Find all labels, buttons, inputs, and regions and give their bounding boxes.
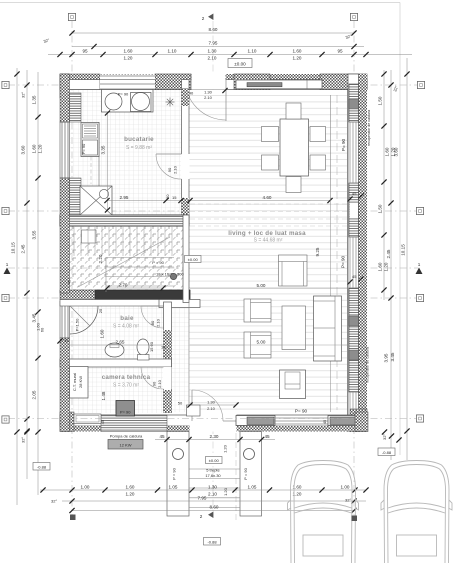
svg-text:±0.00: ±0.00 bbox=[234, 61, 246, 66]
stairs floor hatch bbox=[66, 216, 183, 293]
svg-text:95: 95 bbox=[337, 49, 343, 54]
porch pillar left bbox=[167, 432, 189, 517]
chair right2 bbox=[310, 155, 326, 170]
svg-text:1.60: 1.60 bbox=[32, 144, 37, 153]
right axis box 2 bbox=[416, 207, 423, 214]
living right shaft dashed line bbox=[336, 95, 338, 410]
svg-text:8.60: 8.60 bbox=[210, 505, 219, 510]
top wall pier right corner bbox=[320, 74, 367, 90]
left dim line outer bbox=[11, 68, 20, 505]
level box -0.88 right bbox=[378, 448, 395, 456]
entrance door arc bbox=[192, 390, 223, 421]
kitchen sink left circle bbox=[105, 93, 122, 110]
kitchen floor tiles bbox=[70, 89, 182, 215]
living dim 5.00 lower bbox=[190, 339, 347, 345]
svg-text:1.20: 1.20 bbox=[126, 492, 135, 497]
left wall pier hatch mid bbox=[60, 178, 70, 293]
left dim line 3 bbox=[32, 72, 45, 495]
chair left2 bbox=[262, 155, 279, 170]
top door swing arc bbox=[185, 79, 226, 120]
top dim line segments bbox=[48, 49, 412, 61]
right axis box 4 bbox=[416, 415, 423, 422]
porch level box bbox=[206, 457, 223, 464]
car 2 bbox=[381, 461, 452, 563]
stairs treads upper bbox=[74, 226, 172, 256]
svg-text:recuperator de caldura: recuperator de caldura bbox=[366, 347, 370, 383]
bottom axis label 2 bbox=[200, 512, 214, 520]
chair bottom bbox=[286, 177, 301, 193]
kitchen-living wall bbox=[182, 80, 190, 216]
porch dim line bbox=[155, 434, 275, 442]
top wall pier mid-left bbox=[155, 74, 191, 90]
svg-text:2.10: 2.10 bbox=[207, 406, 216, 411]
right wall insulation strip bbox=[359, 74, 368, 432]
fridge lower box bbox=[83, 140, 98, 155]
top wall core outline bbox=[60, 80, 367, 90]
bath washbasin bbox=[105, 343, 124, 357]
svg-text:1.10: 1.10 bbox=[248, 49, 257, 54]
axis 4 horizontal y=418.5 bbox=[8, 418, 418, 420]
chair right1 bbox=[310, 127, 326, 142]
bath dim 2.65 bbox=[70, 340, 163, 346]
right bottom ticks bbox=[382, 429, 402, 442]
chair top bbox=[286, 103, 301, 119]
right wall window3 lines bbox=[350, 392, 356, 409]
svg-text:2.10: 2.10 bbox=[156, 318, 161, 327]
svg-text:45: 45 bbox=[264, 434, 270, 439]
svg-text:45: 45 bbox=[322, 419, 327, 424]
svg-text:32°: 32° bbox=[21, 92, 26, 98]
svg-text:3.35: 3.35 bbox=[101, 145, 106, 154]
left wall brick leaf mid bbox=[70, 178, 82, 215]
svg-text:-0.88: -0.88 bbox=[382, 450, 392, 455]
svg-text:32°: 32° bbox=[51, 499, 57, 504]
right wall pier top bbox=[349, 84, 359, 122]
coffee table bbox=[282, 306, 306, 350]
svg-text:P = 90: P = 90 bbox=[172, 467, 177, 479]
right dim line c bbox=[401, 58, 410, 460]
level box -0.88 bottom bbox=[204, 538, 221, 546]
section line 1-1 y=268 bbox=[8, 267, 418, 269]
svg-text:2.10: 2.10 bbox=[157, 379, 162, 388]
svg-text:32°: 32° bbox=[21, 437, 26, 443]
svg-text:8.60: 8.60 bbox=[209, 27, 218, 32]
svg-text:P= 90: P= 90 bbox=[81, 143, 86, 154]
svg-text:1.35: 1.35 bbox=[32, 95, 37, 104]
axis marker top C bbox=[350, 13, 357, 20]
svg-text:12 KW: 12 KW bbox=[119, 442, 131, 447]
top level box 0.00 bbox=[228, 59, 252, 68]
svg-text:5.00: 5.00 bbox=[257, 339, 266, 344]
svg-text:7.95: 7.95 bbox=[209, 41, 218, 46]
svg-text:60: 60 bbox=[40, 327, 45, 332]
bottom axis square C bbox=[352, 516, 358, 522]
svg-text:1.20: 1.20 bbox=[293, 56, 302, 61]
bottom wall sill window left bbox=[74, 414, 101, 424]
hall floor bbox=[164, 302, 189, 412]
svg-text:9.25: 9.25 bbox=[315, 247, 320, 256]
svg-text:1.50: 1.50 bbox=[378, 204, 383, 213]
corner sink circle bbox=[99, 189, 108, 198]
svg-text:5 trepte: 5 trepte bbox=[206, 468, 220, 473]
bath shower diagonal bbox=[70, 306, 90, 326]
axis 3 horizontal y=298 bbox=[8, 297, 418, 299]
svg-text:P = 90: P = 90 bbox=[152, 260, 164, 265]
tv stand bbox=[280, 370, 306, 399]
kitchen hob star bbox=[166, 98, 175, 107]
armchair 2 bbox=[244, 332, 271, 358]
right wall 45 label low bbox=[347, 274, 363, 285]
right section marker 1 bbox=[416, 262, 423, 274]
svg-text:1.05: 1.05 bbox=[248, 484, 257, 489]
svg-text:15: 15 bbox=[161, 345, 166, 350]
bottom entrance door gap bbox=[190, 413, 237, 432]
bottom axis square A bbox=[70, 515, 76, 521]
top door dim labels bbox=[184, 88, 227, 102]
svg-text:1.30: 1.30 bbox=[208, 49, 217, 54]
left axis box 1 bbox=[2, 81, 9, 88]
svg-text:2.65: 2.65 bbox=[116, 340, 125, 345]
left section marker 1 bbox=[4, 262, 11, 274]
kitchen sink right circle bbox=[132, 93, 150, 111]
svg-text:4.60: 4.60 bbox=[263, 195, 272, 200]
bottom dim line 7.95 bbox=[62, 495, 366, 503]
svg-text:45: 45 bbox=[352, 274, 357, 279]
svg-text:±0.00: ±0.00 bbox=[209, 458, 220, 463]
svg-text:45: 45 bbox=[352, 191, 357, 196]
svg-text:90: 90 bbox=[167, 167, 172, 172]
bath door opening bbox=[163, 306, 172, 328]
living floor dashed rows bbox=[190, 204, 347, 226]
svg-text:1.20: 1.20 bbox=[38, 144, 43, 153]
porch pillar right circle bbox=[244, 449, 255, 460]
bottom wall pier mid-left bbox=[101, 415, 167, 432]
entrance door dim bbox=[187, 400, 238, 411]
svg-text:-0.88: -0.88 bbox=[207, 539, 217, 544]
stairs walk line bbox=[78, 237, 170, 287]
svg-text:S = 9.88 m²: S = 9.88 m² bbox=[126, 145, 152, 151]
svg-text:1.60: 1.60 bbox=[378, 262, 383, 271]
level box -0.88 left bbox=[33, 463, 50, 471]
hall-bath wall bbox=[164, 302, 172, 413]
plot boundary top line bbox=[0, 2, 400, 4]
svg-text:P= 90: P= 90 bbox=[120, 410, 131, 415]
svg-text:1.30: 1.30 bbox=[204, 90, 213, 95]
svg-text:2.70: 2.70 bbox=[119, 282, 128, 287]
svg-text:1: 1 bbox=[418, 262, 421, 267]
top wall pier left bbox=[60, 74, 100, 98]
svg-text:7.95: 7.95 bbox=[198, 495, 207, 500]
svg-text:P=1.50: P=1.50 bbox=[75, 318, 80, 332]
svg-text:2: 2 bbox=[200, 514, 203, 519]
living dim 4.60 bbox=[187, 195, 332, 203]
right wall 45 label mid bbox=[347, 191, 363, 202]
svg-text:5.00: 5.00 bbox=[257, 283, 266, 288]
svg-text:1.50: 1.50 bbox=[378, 96, 383, 105]
svg-text:3.45: 3.45 bbox=[390, 352, 395, 361]
svg-text:1.30: 1.30 bbox=[208, 484, 217, 489]
kitchen door opening bbox=[181, 154, 190, 179]
svg-text:90: 90 bbox=[152, 381, 157, 386]
shoe cabinet at entrance bbox=[187, 405, 201, 416]
left wall pier hatch bottom bbox=[60, 338, 70, 432]
left wall brick leaf top bbox=[70, 93, 82, 122]
left axis box 4 bbox=[2, 416, 9, 423]
right axis box 3 bbox=[416, 294, 423, 301]
top door leaf bbox=[225, 79, 227, 121]
svg-text:2.10: 2.10 bbox=[208, 492, 217, 497]
porch pillar right bbox=[240, 432, 262, 517]
svg-text:bucatarie: bucatarie bbox=[124, 136, 154, 143]
svg-text:80: 80 bbox=[165, 194, 170, 199]
right dim line a bbox=[378, 70, 389, 300]
svg-text:1.30: 1.30 bbox=[207, 400, 216, 405]
svg-text:2.95: 2.95 bbox=[120, 195, 129, 200]
bottom wall sill bench left bbox=[236, 416, 275, 426]
svg-text:2.10: 2.10 bbox=[204, 95, 213, 100]
svg-text:S = 3.70 m²: S = 3.70 m² bbox=[113, 383, 139, 389]
svg-text:95: 95 bbox=[82, 49, 88, 54]
pompa box bbox=[108, 440, 143, 450]
svg-text:1.10: 1.10 bbox=[168, 49, 177, 54]
kitchen-living wall hatch top bbox=[182, 88, 190, 106]
living west wall hatch low bbox=[182, 198, 190, 215]
kitchen window top bbox=[100, 75, 155, 90]
bottom wall sill bench right bbox=[328, 416, 361, 426]
svg-text:3.60: 3.60 bbox=[21, 145, 26, 154]
kitchen fridge bbox=[81, 123, 99, 157]
living dim 5.00 upper bbox=[190, 283, 347, 289]
svg-text:45: 45 bbox=[67, 279, 72, 284]
top dim line 7.95 bbox=[72, 41, 364, 50]
svg-text:3.95: 3.95 bbox=[384, 353, 389, 362]
svg-text:P= 90: P= 90 bbox=[341, 255, 346, 268]
svg-text:living + loc de luat masa: living + loc de luat masa bbox=[228, 230, 306, 237]
svg-text:camera tehnica: camera tehnica bbox=[102, 374, 151, 381]
left axis box 2 bbox=[2, 207, 9, 214]
svg-text:1.00: 1.00 bbox=[341, 484, 350, 489]
svg-text:2: 2 bbox=[202, 16, 205, 21]
axis porch vertical x=236 bbox=[235, 415, 237, 520]
svg-text:S = 4.08 m²: S = 4.08 m² bbox=[113, 324, 139, 330]
stairs-bath dark wall bbox=[60, 290, 190, 300]
svg-text:recuperator de caldura: recuperator de caldura bbox=[367, 110, 371, 146]
living room parquet bbox=[189, 90, 347, 415]
kitchen top counter bbox=[102, 90, 154, 113]
svg-text:2.10: 2.10 bbox=[208, 56, 217, 61]
hall-bath wall hatch low bbox=[164, 390, 172, 413]
entrance door leaf bbox=[191, 390, 193, 421]
boiler unit bbox=[70, 367, 89, 399]
axis 2 vertical x=213 bbox=[212, 21, 214, 512]
svg-text:3.45: 3.45 bbox=[32, 313, 37, 322]
right axis box 1 bbox=[417, 81, 424, 88]
left wall bath window lines bbox=[62, 301, 68, 338]
svg-text:1.00: 1.00 bbox=[81, 484, 90, 489]
svg-text:80: 80 bbox=[150, 320, 155, 325]
entrance door threshold bbox=[223, 420, 236, 422]
stairs drain circle bbox=[170, 273, 176, 279]
svg-text:2.05: 2.05 bbox=[32, 390, 37, 399]
svg-text:3.55: 3.55 bbox=[32, 230, 37, 239]
right wall pier bottom bbox=[350, 409, 367, 432]
svg-text:45: 45 bbox=[100, 419, 105, 424]
bath shower arc bbox=[70, 306, 98, 334]
kitchen corner sink unit bbox=[80, 186, 112, 215]
svg-text:1.20: 1.20 bbox=[124, 56, 133, 61]
right wall core bbox=[348, 74, 359, 432]
heat pump unit dark bbox=[116, 401, 135, 417]
kitchen vertical dim line bbox=[105, 110, 110, 212]
svg-text:1.20: 1.20 bbox=[223, 487, 228, 496]
svg-text:10.15: 10.15 bbox=[11, 242, 16, 254]
svg-text:1.05: 1.05 bbox=[169, 484, 178, 489]
armchair 3 bbox=[279, 255, 308, 286]
bottom wall pier left corner bbox=[60, 412, 74, 432]
svg-text:Pompa de caldura: Pompa de caldura bbox=[110, 434, 143, 439]
left axis box 3 bbox=[2, 294, 9, 301]
bathroom floor tiles bbox=[70, 302, 163, 360]
svg-text:50: 50 bbox=[178, 401, 183, 406]
svg-text:28 KW: 28 KW bbox=[78, 376, 83, 388]
car 1 bbox=[288, 461, 359, 563]
bath door arc bbox=[141, 306, 164, 328]
porch pillar left circle bbox=[173, 449, 184, 460]
kitchen door arc bbox=[156, 154, 182, 179]
svg-text:P = 90: P = 90 bbox=[243, 467, 248, 479]
svg-text:2.20: 2.20 bbox=[98, 254, 103, 263]
bath-technical wall bbox=[60, 359, 172, 367]
svg-text:P= 90: P= 90 bbox=[295, 409, 308, 414]
entrance door top opening bbox=[192, 74, 226, 90]
kitchen-stairs wall bbox=[60, 215, 189, 226]
stairs treads lower bbox=[106, 258, 174, 293]
svg-text:40: 40 bbox=[189, 91, 194, 96]
left wall bath window white bbox=[60, 301, 70, 338]
bottom dim line 8.60 bbox=[69, 505, 356, 513]
svg-text:P= 90: P= 90 bbox=[341, 138, 346, 151]
armchair 1 bbox=[244, 299, 271, 322]
living window top assembly bbox=[236, 80, 322, 89]
axis label 2 top bbox=[202, 14, 214, 22]
stairs right wall bbox=[183, 215, 189, 303]
svg-text:25: 25 bbox=[98, 308, 103, 313]
svg-text:15 60: 15 60 bbox=[149, 341, 154, 352]
left wall core white at windows bbox=[60, 122, 70, 178]
technical door leaf bbox=[141, 366, 164, 368]
svg-text:1.60: 1.60 bbox=[385, 147, 390, 156]
svg-text:15: 15 bbox=[172, 195, 177, 200]
svg-text:±0.00: ±0.00 bbox=[188, 257, 199, 262]
stairs dim 2.70 bbox=[104, 282, 165, 290]
axis 2 horizontal y=211 bbox=[8, 210, 418, 212]
top wall insulation strip bbox=[60, 74, 367, 80]
bath door leaf bbox=[141, 305, 164, 307]
svg-text:1.60: 1.60 bbox=[126, 484, 135, 489]
svg-text:45: 45 bbox=[64, 338, 69, 343]
corner sink X diagonals bbox=[80, 186, 112, 215]
right wall pier mid bbox=[349, 183, 359, 237]
technical room floor tiles bbox=[70, 367, 163, 413]
kitchen left counter edge bbox=[98, 122, 100, 211]
porch steps bbox=[189, 469, 240, 508]
svg-text:2.30: 2.30 bbox=[210, 434, 219, 439]
dining sideboard line bbox=[330, 95, 332, 200]
bottom dim line segments bbox=[40, 484, 369, 496]
left wall pier hatch top bbox=[60, 74, 70, 122]
svg-text:1.60: 1.60 bbox=[293, 49, 302, 54]
dining table bbox=[280, 119, 309, 176]
right dim line b bbox=[382, 70, 399, 460]
svg-text:17,6x.30: 17,6x.30 bbox=[205, 473, 221, 478]
svg-text:32°: 32° bbox=[345, 498, 351, 503]
svg-text:3.60: 3.60 bbox=[394, 147, 399, 156]
svg-text:1.20: 1.20 bbox=[223, 444, 228, 453]
svg-text:1.60: 1.60 bbox=[124, 49, 133, 54]
sofa bbox=[314, 296, 342, 361]
svg-text:P= 90: P= 90 bbox=[118, 92, 129, 97]
bath wc bbox=[137, 339, 149, 360]
svg-text:1: 1 bbox=[6, 262, 9, 267]
svg-text:1.60: 1.60 bbox=[100, 329, 105, 338]
living dim 9.25 rot bbox=[315, 198, 331, 412]
stairs level box bbox=[185, 256, 202, 263]
svg-text:S = 44.68 m²: S = 44.68 m² bbox=[254, 238, 283, 244]
chair left1 bbox=[262, 127, 279, 142]
technical door opening bbox=[163, 367, 172, 389]
bottom wall core bbox=[60, 415, 367, 426]
svg-text:baie: baie bbox=[120, 315, 134, 322]
stairs top landing rect bbox=[82, 230, 97, 243]
left wall insulation strip bbox=[60, 74, 69, 432]
living right inner face line bbox=[347, 90, 349, 415]
hall-bath wall hatch mid bbox=[164, 330, 172, 366]
svg-text:2.45: 2.45 bbox=[21, 244, 26, 253]
small dark marker near car1 bbox=[352, 516, 358, 522]
stair bottom rail piece bbox=[159, 300, 200, 308]
technical door arc bbox=[141, 367, 164, 389]
right wall pier low bbox=[349, 288, 359, 392]
bottom wall insulation bbox=[60, 426, 367, 432]
hall-living boundary line bbox=[188, 302, 190, 413]
plot boundary right line bbox=[399, 3, 401, 456]
svg-text:1.48: 1.48 bbox=[101, 391, 106, 400]
bottom wall pier right corner bbox=[355, 412, 368, 432]
bottom wall window mid lines bbox=[275, 418, 328, 424]
svg-text:1.20: 1.20 bbox=[384, 262, 389, 271]
left wall kitchen window lines bbox=[62, 122, 68, 178]
svg-text:2.10: 2.10 bbox=[173, 165, 178, 174]
right wall window1 lines bbox=[350, 122, 356, 183]
svg-text:-0.88: -0.88 bbox=[37, 464, 47, 469]
kitchen sink right square bbox=[131, 93, 152, 112]
left dim line 2 bbox=[21, 70, 30, 479]
axis 1 horizontal y=85 bbox=[8, 84, 420, 86]
axis A vertical x=72 bbox=[71, 21, 73, 515]
svg-text:10.15: 10.15 bbox=[401, 244, 406, 256]
top wall pier mid-right bbox=[234, 74, 270, 90]
axis marker top A bbox=[68, 13, 75, 20]
svg-text:45: 45 bbox=[159, 434, 165, 439]
kitchen dim line 2.95 bbox=[104, 198, 183, 203]
bath top wall core bbox=[60, 300, 171, 307]
kitchen door leaf bbox=[156, 153, 182, 155]
axis C vertical x=354 bbox=[353, 21, 355, 516]
fridge grille bbox=[83, 124, 98, 138]
svg-text:2.45: 2.45 bbox=[386, 249, 391, 258]
right wall window2 lines bbox=[350, 237, 356, 288]
top dim line 8.60 bbox=[69, 27, 356, 36]
